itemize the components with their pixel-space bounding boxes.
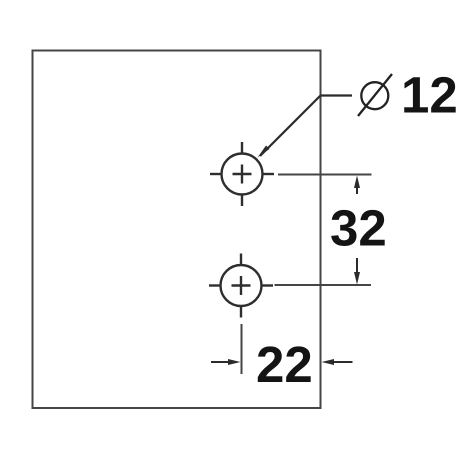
svg-text:32: 32 bbox=[330, 200, 387, 257]
svg-text:22: 22 bbox=[256, 336, 313, 393]
svg-text:12: 12 bbox=[401, 67, 458, 124]
